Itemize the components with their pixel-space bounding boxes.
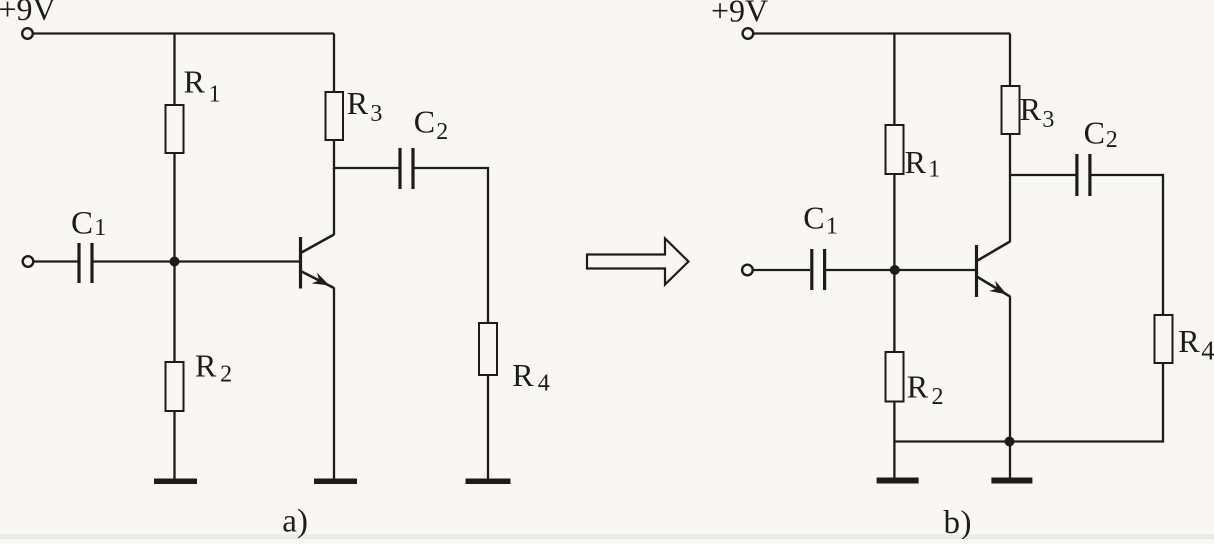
svg-text:3: 3 (370, 101, 382, 127)
svg-text:1: 1 (94, 215, 106, 241)
svg-text:2: 2 (932, 384, 944, 410)
svg-text:3: 3 (1042, 107, 1054, 133)
svg-text:1: 1 (209, 82, 221, 108)
svg-text:4: 4 (1201, 336, 1214, 366)
svg-text:R: R (1178, 323, 1200, 359)
svg-text:+9V: +9V (0, 0, 56, 27)
svg-text:R: R (512, 357, 534, 393)
svg-text:a: a (282, 504, 297, 540)
svg-text:C: C (414, 104, 435, 140)
svg-text:4: 4 (538, 371, 550, 397)
svg-text:): ) (297, 504, 308, 540)
svg-text:2: 2 (436, 119, 448, 145)
svg-text:): ) (961, 505, 972, 539)
svg-text:1: 1 (928, 157, 940, 183)
svg-text:R: R (347, 85, 369, 121)
svg-text:1: 1 (826, 214, 838, 240)
svg-text:R: R (907, 369, 929, 405)
svg-text:R: R (905, 144, 927, 180)
svg-text:R: R (195, 348, 217, 384)
svg-text:C: C (1084, 115, 1105, 151)
svg-text:b: b (944, 505, 961, 539)
svg-text:+9V: +9V (711, 0, 768, 29)
svg-text:R: R (184, 64, 206, 100)
svg-text:R: R (1020, 91, 1042, 127)
svg-text:2: 2 (220, 362, 232, 388)
svg-text:2: 2 (1106, 127, 1118, 153)
svg-text:C: C (803, 200, 824, 236)
svg-text:C: C (71, 206, 93, 242)
